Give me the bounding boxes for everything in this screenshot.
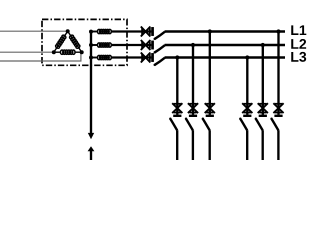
connector symbol on drop 5 bbox=[258, 103, 268, 117]
wire: delta bottom coil end stubs bbox=[54, 51, 82, 53]
wire: drop 2 outgoing bbox=[192, 130, 194, 160]
node: tap on L3 for drop 1 bbox=[175, 55, 179, 59]
switch blade on row 2 bbox=[154, 45, 165, 53]
feeder drop 3 wire (from L1) bbox=[209, 32, 211, 115]
connector symbol on drop 6 bbox=[273, 103, 283, 117]
feeder drop 1 wire (from L3) bbox=[176, 58, 178, 115]
secondary winding coil row 3 bbox=[97, 55, 111, 59]
node: tap on L1 for drop 6 bbox=[276, 29, 280, 33]
wire: delta left coil end stubs bbox=[54, 31, 68, 52]
node: tap on L2 for drop 5 bbox=[261, 43, 265, 47]
label L3 bbox=[291, 52, 306, 62]
label L1 bbox=[291, 25, 306, 35]
feeder drop 2 wire (from L2) bbox=[192, 45, 194, 115]
node: secondary bus row 3 bbox=[89, 56, 93, 60]
wire: secondary star-point bus and PEN feed bbox=[89, 30, 98, 134]
feeder drop 4 wire (from L3) bbox=[246, 58, 248, 115]
delta primary winding: left coil bbox=[55, 34, 67, 49]
wire: drop 4 outgoing bbox=[246, 130, 248, 160]
node: tap on L1 for drop 3 bbox=[208, 29, 212, 33]
connector symbol on drop 2 bbox=[188, 103, 198, 117]
switch blade on drop 5 bbox=[255, 118, 263, 131]
PEN conductor down-arrow bbox=[88, 133, 94, 139]
connector symbol on row 3 bbox=[141, 53, 154, 63]
wire: busbar L3 bbox=[165, 56, 285, 58]
wire: busbar L1 bbox=[165, 30, 285, 32]
delta primary winding: bottom coil bbox=[60, 50, 75, 54]
wire: secondary stub row 3 bbox=[91, 57, 98, 59]
switch blade on drop 6 bbox=[270, 118, 278, 131]
wire: delta right coil end stubs bbox=[68, 31, 82, 52]
feeder drop 5 wire (from L2) bbox=[262, 45, 264, 115]
switch blade on drop 4 bbox=[239, 118, 247, 131]
wire: busbar L2 bbox=[165, 44, 285, 46]
wire: drop 3 outgoing bbox=[209, 130, 211, 160]
wire: drop 6 outgoing bbox=[277, 130, 279, 160]
switch blade on drop 1 bbox=[169, 118, 177, 131]
wire: incoming supply phase 3 bbox=[0, 52, 81, 61]
switch blade on drop 3 bbox=[202, 118, 210, 131]
wire: row 3 coil to connector bbox=[112, 56, 152, 58]
node: secondary bus row 2 bbox=[89, 43, 93, 47]
secondary winding coil row 2 bbox=[97, 43, 111, 47]
connector symbol on drop 4 bbox=[242, 103, 252, 117]
secondary winding coil row 1 bbox=[97, 29, 111, 33]
delta primary winding: right coil bbox=[69, 34, 81, 49]
node: tap on L3 for drop 4 bbox=[245, 55, 249, 59]
connector symbol on row 1 bbox=[141, 27, 154, 37]
switch blade on drop 2 bbox=[185, 118, 193, 131]
transformer enclosure (dash-dot box) bbox=[42, 19, 127, 65]
connector symbol on row 2 bbox=[141, 40, 154, 50]
wire: secondary stub row 2 bbox=[91, 44, 98, 46]
wire: incoming supply phase 1 bbox=[0, 30, 68, 32]
label L2 bbox=[291, 39, 306, 49]
wire: row 1 coil to connector bbox=[112, 30, 152, 32]
feeder drop 6 wire (from L1) bbox=[277, 32, 279, 115]
switch blade on row 1 bbox=[154, 32, 165, 40]
switch blade on row 3 bbox=[154, 58, 165, 66]
node: delta bottom-left vertex bbox=[52, 50, 56, 54]
continuation up-arrow bbox=[88, 146, 95, 160]
wire: drop 1 outgoing bbox=[176, 130, 178, 160]
connector symbol on drop 1 bbox=[172, 103, 182, 117]
connector symbol on drop 3 bbox=[205, 103, 215, 117]
wire: incoming supply phase 2 bbox=[0, 51, 54, 53]
wire: row 2 coil to connector bbox=[112, 44, 152, 46]
node: delta top vertex bbox=[66, 29, 70, 33]
node: delta bottom-right vertex bbox=[80, 50, 84, 54]
node: tap on L2 for drop 2 bbox=[191, 43, 195, 47]
wire: drop 5 outgoing bbox=[262, 130, 264, 160]
